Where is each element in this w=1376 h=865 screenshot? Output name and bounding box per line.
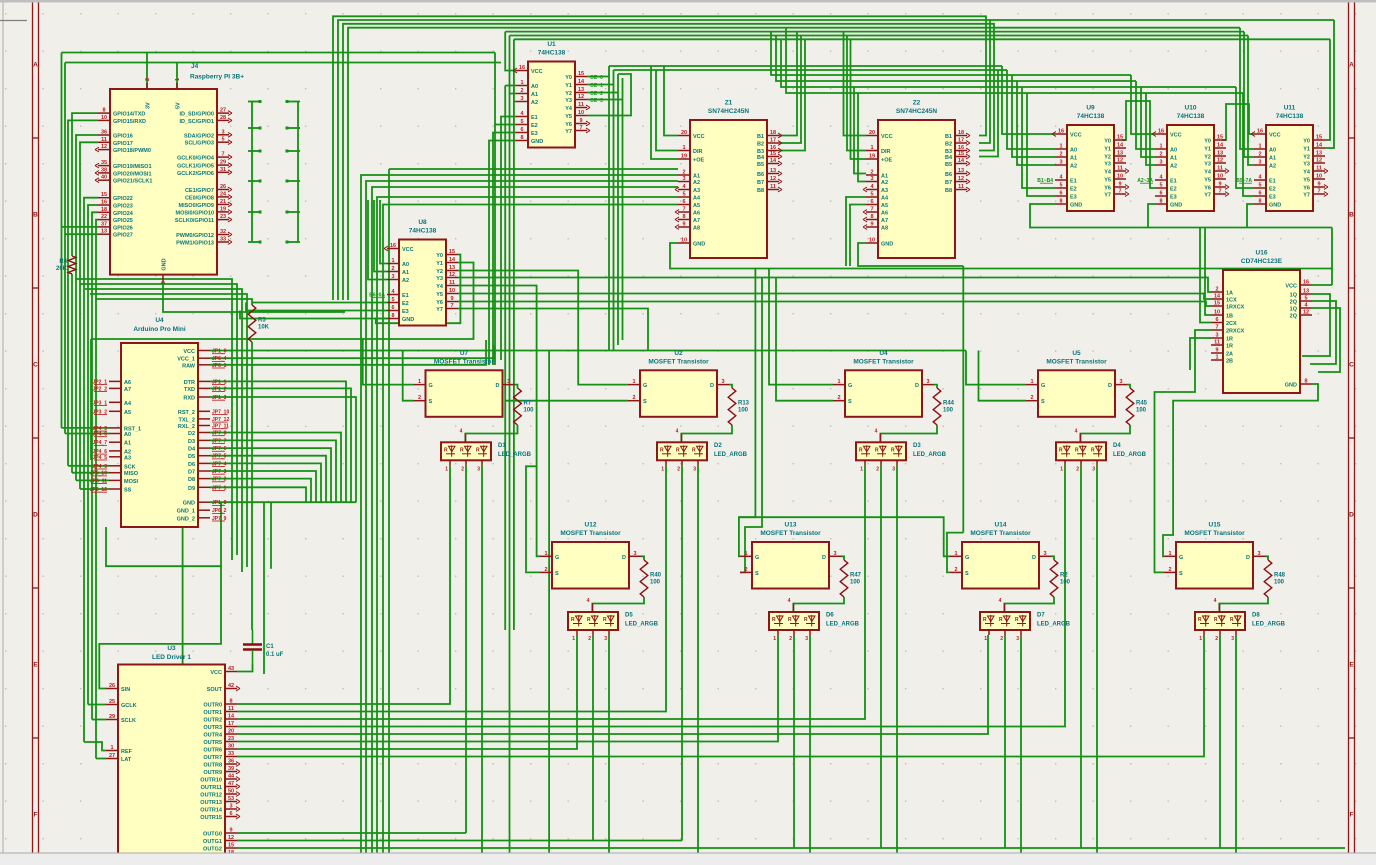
svg-text:6: 6 bbox=[520, 127, 523, 133]
wire bbox=[880, 465, 882, 848]
svg-text:R: R bbox=[804, 617, 808, 623]
svg-text:10: 10 bbox=[869, 238, 875, 244]
svg-text:S: S bbox=[555, 571, 559, 577]
svg-text:R: R bbox=[1198, 617, 1202, 623]
svg-text:Y7: Y7 bbox=[565, 129, 572, 135]
svg-text:SCLK: SCLK bbox=[121, 718, 136, 724]
svg-text:PWM0/GPIO12: PWM0/GPIO12 bbox=[176, 233, 214, 239]
svg-text:GPIO14/TXD: GPIO14/TXD bbox=[113, 112, 145, 118]
svg-text:A7: A7 bbox=[881, 218, 888, 224]
wire bbox=[248, 211, 260, 213]
wire bbox=[494, 53, 496, 125]
wire bbox=[779, 39, 805, 150]
svg-text:5: 5 bbox=[1258, 183, 1261, 189]
svg-text:12: 12 bbox=[1217, 158, 1223, 164]
junction bbox=[286, 100, 289, 103]
svg-text:19: 19 bbox=[220, 206, 226, 212]
svg-text:12: 12 bbox=[101, 144, 107, 150]
svg-text:A2: A2 bbox=[1070, 164, 1077, 170]
svg-text:B4: B4 bbox=[945, 155, 953, 161]
svg-text:A1: A1 bbox=[693, 174, 700, 180]
svg-text:A2: A2 bbox=[693, 180, 700, 186]
wire bbox=[1190, 338, 1211, 370]
svg-text:13: 13 bbox=[1303, 289, 1309, 295]
svg-text:3: 3 bbox=[221, 129, 224, 135]
svg-text:U14: U14 bbox=[995, 522, 1007, 529]
wire bbox=[934, 385, 937, 388]
wire bbox=[786, 28, 1243, 93]
wire bbox=[513, 102, 515, 631]
svg-text:2RXCX: 2RXCX bbox=[1226, 329, 1245, 335]
LED module D4 LED_ARGB bbox=[1056, 428, 1147, 472]
wire bbox=[1080, 425, 1130, 442]
wire bbox=[846, 197, 866, 266]
svg-text:14: 14 bbox=[1316, 143, 1323, 149]
svg-text:R45: R45 bbox=[1136, 401, 1148, 407]
svg-text:9: 9 bbox=[1215, 348, 1218, 354]
svg-text:VCC: VCC bbox=[210, 670, 222, 676]
IC U15 MOSFET Transistor bbox=[1164, 522, 1265, 589]
svg-text:12: 12 bbox=[958, 176, 964, 182]
svg-text:A7: A7 bbox=[693, 218, 700, 224]
wire bbox=[609, 65, 1002, 67]
svg-text:R44: R44 bbox=[943, 401, 955, 407]
LED module D3 LED_ARGB bbox=[856, 428, 947, 472]
svg-text:Y6: Y6 bbox=[436, 300, 443, 306]
svg-text:B2: B2 bbox=[757, 142, 764, 148]
wire bbox=[92, 719, 106, 721]
svg-text:D8: D8 bbox=[188, 477, 195, 483]
svg-text:A7: A7 bbox=[124, 387, 131, 393]
svg-text:13: 13 bbox=[1316, 151, 1322, 157]
svg-text:12: 12 bbox=[1303, 310, 1309, 316]
svg-text:10: 10 bbox=[449, 288, 455, 294]
svg-text:R: R bbox=[692, 447, 696, 453]
LED module D2 LED_ARGB bbox=[657, 428, 748, 472]
svg-text:VCC: VCC bbox=[1070, 133, 1082, 139]
wire bbox=[76, 135, 98, 480]
wire bbox=[850, 205, 866, 267]
svg-text:100: 100 bbox=[650, 580, 661, 586]
svg-text:5: 5 bbox=[682, 192, 685, 198]
svg-text:U13: U13 bbox=[785, 522, 797, 529]
wire bbox=[363, 339, 414, 385]
wire bbox=[210, 440, 336, 502]
wire bbox=[465, 425, 517, 442]
wire bbox=[65, 433, 109, 435]
svg-text:3: 3 bbox=[693, 466, 696, 472]
wire bbox=[781, 39, 1236, 87]
svg-text:Y0: Y0 bbox=[565, 75, 572, 81]
svg-text:U2: U2 bbox=[674, 350, 683, 357]
wire bbox=[91, 263, 474, 340]
svg-text:4: 4 bbox=[875, 428, 878, 434]
LED module D5 LED_ARGB bbox=[568, 598, 659, 642]
svg-text:6: 6 bbox=[391, 305, 394, 311]
wire bbox=[1127, 385, 1130, 388]
wire bbox=[681, 425, 732, 442]
svg-text:R: R bbox=[676, 447, 680, 453]
wire bbox=[237, 635, 778, 742]
svg-text:31: 31 bbox=[220, 167, 226, 173]
IC U2 MOSFET Transistor bbox=[628, 350, 729, 417]
svg-text:B: B bbox=[1349, 212, 1354, 219]
wire bbox=[64, 63, 66, 434]
svg-text:14: 14 bbox=[228, 714, 235, 720]
wire bbox=[739, 517, 950, 556]
svg-text:5: 5 bbox=[870, 192, 873, 198]
wire bbox=[210, 501, 356, 503]
wire bbox=[237, 664, 253, 672]
svg-text:U9: U9 bbox=[1086, 105, 1095, 112]
svg-text:VCC: VCC bbox=[402, 247, 414, 253]
svg-text:10: 10 bbox=[578, 110, 584, 116]
svg-text:GND: GND bbox=[881, 242, 893, 248]
svg-text:74HC138: 74HC138 bbox=[1276, 113, 1304, 120]
wire bbox=[333, 16, 986, 300]
svg-text:Y5: Y5 bbox=[1303, 178, 1310, 184]
svg-text:ID_SC/GPIO1: ID_SC/GPIO1 bbox=[179, 119, 214, 125]
wire bbox=[210, 397, 356, 502]
wire bbox=[1141, 87, 1155, 157]
wire bbox=[979, 70, 998, 157]
svg-text:U4: U4 bbox=[155, 317, 164, 324]
wire bbox=[1096, 465, 1098, 853]
svg-text:A5: A5 bbox=[124, 410, 131, 416]
svg-text:R: R bbox=[875, 447, 879, 453]
svg-text:6: 6 bbox=[1258, 191, 1261, 197]
svg-text:7: 7 bbox=[450, 303, 453, 309]
svg-text:A1: A1 bbox=[1070, 156, 1077, 162]
svg-text:2: 2 bbox=[744, 567, 747, 573]
wire bbox=[182, 527, 184, 664]
svg-text:21: 21 bbox=[220, 199, 226, 205]
svg-text:S: S bbox=[1179, 571, 1183, 577]
svg-text:G: G bbox=[848, 383, 852, 389]
svg-text:Y0: Y0 bbox=[1104, 139, 1111, 145]
svg-text:D: D bbox=[622, 555, 626, 561]
svg-text:3: 3 bbox=[833, 551, 836, 557]
svg-text:D8: D8 bbox=[1252, 613, 1260, 619]
wire bbox=[809, 635, 811, 853]
wire bbox=[68, 120, 98, 465]
wire bbox=[366, 181, 678, 853]
wire bbox=[210, 388, 351, 502]
svg-text:3: 3 bbox=[507, 379, 510, 385]
wire bbox=[1051, 556, 1054, 560]
wire bbox=[493, 133, 516, 366]
svg-text:E3: E3 bbox=[531, 131, 538, 137]
wire bbox=[1247, 204, 1254, 228]
svg-text:12: 12 bbox=[578, 94, 584, 100]
wire bbox=[587, 99, 623, 101]
svg-text:3: 3 bbox=[1059, 160, 1062, 166]
svg-text:39: 39 bbox=[228, 766, 234, 772]
svg-text:A4: A4 bbox=[124, 401, 132, 407]
svg-text:1: 1 bbox=[110, 745, 113, 751]
LED module D8 LED_ARGB bbox=[1195, 598, 1286, 642]
svg-text:U3: U3 bbox=[167, 645, 176, 652]
svg-text:GPIO18/PWM0: GPIO18/PWM0 bbox=[113, 148, 151, 154]
svg-text:CE0/GPIO8: CE0/GPIO8 bbox=[185, 195, 214, 201]
svg-text:10: 10 bbox=[101, 115, 107, 121]
resistor R47 bbox=[840, 560, 861, 597]
svg-text:Y4: Y4 bbox=[565, 106, 573, 112]
svg-text:R: R bbox=[859, 447, 863, 453]
svg-text:2: 2 bbox=[1258, 152, 1261, 158]
wire bbox=[338, 20, 1334, 300]
svg-text:D4: D4 bbox=[188, 447, 196, 453]
svg-text:LED_ARGB: LED_ARGB bbox=[498, 452, 532, 458]
svg-text:3: 3 bbox=[391, 274, 394, 280]
svg-text:11: 11 bbox=[228, 706, 234, 712]
svg-text:2: 2 bbox=[1030, 395, 1033, 401]
wire bbox=[210, 471, 316, 502]
svg-text:20: 20 bbox=[228, 729, 234, 735]
IC U13 MOSFET Transistor bbox=[740, 522, 841, 589]
svg-text:11: 11 bbox=[770, 184, 776, 190]
svg-text:OUTG0: OUTG0 bbox=[203, 832, 222, 838]
wire bbox=[61, 53, 63, 428]
wire bbox=[248, 150, 260, 152]
wire bbox=[65, 62, 501, 64]
svg-text:15: 15 bbox=[958, 151, 964, 157]
svg-text:8: 8 bbox=[1159, 199, 1162, 205]
svg-text:15: 15 bbox=[1214, 301, 1220, 307]
wire bbox=[62, 226, 99, 228]
svg-text:2Q: 2Q bbox=[1290, 300, 1298, 306]
svg-text:2: 2 bbox=[1215, 287, 1218, 293]
wire bbox=[592, 597, 644, 612]
svg-text:LED_ARGB: LED_ARGB bbox=[913, 452, 947, 458]
wire bbox=[90, 294, 247, 567]
wire bbox=[287, 127, 300, 129]
wire bbox=[176, 63, 178, 90]
wire bbox=[1022, 87, 1055, 188]
IC J4 Raspberry PI 3B+ bbox=[95, 63, 244, 284]
junction bbox=[286, 211, 289, 214]
svg-text:1CX: 1CX bbox=[1226, 298, 1237, 304]
svg-text:VCC: VCC bbox=[1269, 133, 1281, 139]
svg-text:11: 11 bbox=[101, 137, 107, 143]
svg-text:GND: GND bbox=[693, 242, 705, 248]
svg-text:MOSFET Transistor: MOSFET Transistor bbox=[970, 530, 1031, 537]
wire bbox=[383, 205, 678, 854]
svg-text:74HC138: 74HC138 bbox=[409, 228, 437, 235]
wire bbox=[656, 70, 678, 151]
svg-text:15: 15 bbox=[228, 843, 234, 849]
svg-text:3: 3 bbox=[477, 466, 480, 472]
svg-text:A: A bbox=[33, 62, 38, 69]
IC U16 CD74HC123E bbox=[1211, 250, 1312, 394]
svg-text:GPIO21/SCLK1: GPIO21/SCLK1 bbox=[113, 179, 152, 185]
svg-text:E2: E2 bbox=[402, 301, 409, 307]
wire bbox=[608, 635, 610, 853]
svg-text:43: 43 bbox=[228, 666, 234, 672]
wire bbox=[374, 200, 387, 272]
svg-text:DIR: DIR bbox=[693, 149, 703, 155]
svg-text:1: 1 bbox=[391, 258, 394, 264]
svg-text:13: 13 bbox=[1117, 151, 1123, 157]
svg-text:14: 14 bbox=[449, 257, 456, 263]
svg-text:2: 2 bbox=[1000, 636, 1003, 642]
svg-text:7: 7 bbox=[221, 152, 224, 158]
svg-text:GPIO19/MISO1: GPIO19/MISO1 bbox=[113, 164, 152, 170]
wire bbox=[297, 102, 299, 243]
svg-text:2: 2 bbox=[1159, 152, 1162, 158]
svg-text:DIR: DIR bbox=[881, 149, 891, 155]
svg-text:30: 30 bbox=[228, 744, 234, 750]
svg-text:B8: B8 bbox=[757, 188, 764, 194]
wire bbox=[68, 465, 109, 467]
wire bbox=[1136, 81, 1155, 149]
svg-text:13: 13 bbox=[770, 168, 776, 174]
svg-text:74HC138: 74HC138 bbox=[1177, 113, 1205, 120]
wire bbox=[96, 220, 98, 759]
svg-text:A8: A8 bbox=[881, 226, 888, 232]
wire bbox=[458, 309, 648, 351]
svg-text:OUTG1: OUTG1 bbox=[203, 839, 222, 845]
IC Z2 SN74HC245N bbox=[863, 100, 970, 259]
svg-text:Y3: Y3 bbox=[1204, 162, 1211, 168]
svg-text:A: A bbox=[1349, 62, 1354, 69]
svg-text:VCC: VCC bbox=[1170, 133, 1182, 139]
wire bbox=[1222, 104, 1254, 140]
wire bbox=[240, 311, 387, 319]
svg-text:1R: 1R bbox=[1226, 337, 1233, 343]
wire bbox=[617, 74, 619, 345]
svg-text:GND: GND bbox=[1285, 383, 1297, 389]
svg-text:RST_2: RST_2 bbox=[178, 410, 195, 416]
wire bbox=[481, 465, 483, 853]
wire bbox=[651, 66, 678, 159]
svg-text:ID_SD/GPIO0: ID_SD/GPIO0 bbox=[179, 112, 214, 118]
svg-text:15: 15 bbox=[101, 192, 107, 198]
wire bbox=[1080, 465, 1082, 848]
svg-text:44: 44 bbox=[228, 774, 235, 780]
svg-text:13: 13 bbox=[958, 168, 964, 174]
svg-text:40: 40 bbox=[101, 175, 107, 181]
LED module D1 LED_ARGB bbox=[441, 428, 532, 472]
svg-text:2: 2 bbox=[1059, 152, 1062, 158]
wire bbox=[388, 169, 390, 853]
wire bbox=[1312, 284, 1332, 286]
svg-text:Y1: Y1 bbox=[1204, 147, 1211, 153]
svg-text:REF: REF bbox=[121, 749, 133, 755]
svg-text:16: 16 bbox=[1158, 129, 1164, 135]
resistor R13 bbox=[728, 388, 749, 425]
svg-text:VCC: VCC bbox=[183, 349, 195, 355]
svg-text:10: 10 bbox=[1316, 174, 1322, 180]
svg-text:A2: A2 bbox=[402, 278, 409, 284]
svg-text:GPIO26: GPIO26 bbox=[113, 225, 133, 231]
svg-text:Y1: Y1 bbox=[565, 83, 572, 89]
wire bbox=[1310, 301, 1336, 364]
svg-text:LED_ARGB: LED_ARGB bbox=[714, 452, 748, 458]
svg-text:GPIO25: GPIO25 bbox=[113, 218, 133, 224]
wire bbox=[1331, 228, 1333, 286]
wire bbox=[793, 635, 795, 848]
svg-text:Y6: Y6 bbox=[1303, 186, 1310, 192]
svg-text:GPIO23: GPIO23 bbox=[113, 204, 133, 210]
svg-text:R: R bbox=[587, 617, 591, 623]
svg-text:A1: A1 bbox=[531, 92, 538, 98]
svg-text:Y4: Y4 bbox=[1204, 170, 1212, 176]
svg-text:D: D bbox=[1108, 383, 1112, 389]
IC U10 74HC138 bbox=[1137, 105, 1229, 212]
svg-text:2: 2 bbox=[588, 636, 591, 642]
wire bbox=[210, 463, 321, 502]
resistor R2 bbox=[1050, 560, 1070, 597]
wire bbox=[75, 279, 232, 560]
svg-text:J4: J4 bbox=[191, 63, 199, 70]
svg-text:1: 1 bbox=[860, 466, 863, 472]
wire bbox=[237, 635, 577, 749]
wire bbox=[779, 32, 797, 136]
svg-text:D3: D3 bbox=[913, 443, 921, 449]
wire bbox=[514, 38, 1330, 40]
svg-text:74HC138: 74HC138 bbox=[1077, 113, 1105, 120]
svg-text:2: 2 bbox=[544, 567, 547, 573]
svg-text:3: 3 bbox=[520, 96, 523, 102]
wire bbox=[210, 381, 346, 502]
svg-text:G: G bbox=[965, 555, 969, 561]
svg-text:1: 1 bbox=[984, 636, 987, 642]
svg-text:8: 8 bbox=[229, 699, 232, 705]
svg-text:8: 8 bbox=[1258, 199, 1261, 205]
junction bbox=[259, 211, 262, 214]
wire bbox=[587, 84, 614, 86]
svg-text:MOSFET Transistor: MOSFET Transistor bbox=[560, 530, 621, 537]
svg-text:Y7: Y7 bbox=[1104, 193, 1111, 199]
svg-text:C: C bbox=[33, 362, 38, 369]
svg-text:19: 19 bbox=[681, 154, 687, 160]
wire bbox=[505, 31, 1244, 33]
svg-text:TXD: TXD bbox=[184, 387, 195, 393]
svg-text:A0: A0 bbox=[1269, 148, 1276, 154]
svg-text:Y1: Y1 bbox=[1104, 147, 1111, 153]
svg-text:15: 15 bbox=[1117, 135, 1123, 141]
svg-text:20K: 20K bbox=[56, 266, 68, 272]
svg-text:VCC: VCC bbox=[1285, 284, 1297, 290]
svg-text:SCK: SCK bbox=[124, 464, 136, 470]
svg-text:A8: A8 bbox=[693, 226, 700, 232]
IC Z1 SN74HC245N bbox=[675, 100, 782, 259]
svg-text:GPIO16: GPIO16 bbox=[113, 134, 133, 140]
svg-text:GND: GND bbox=[183, 501, 195, 507]
svg-text:Y3: Y3 bbox=[436, 276, 443, 282]
wire bbox=[1302, 294, 1330, 356]
svg-text:1A: 1A bbox=[1226, 291, 1233, 297]
svg-text:1: 1 bbox=[1060, 466, 1063, 472]
svg-text:A3: A3 bbox=[881, 188, 888, 194]
svg-text:33: 33 bbox=[228, 751, 234, 757]
resistor R4 bbox=[56, 256, 76, 274]
svg-text:R: R bbox=[460, 447, 464, 453]
svg-text:GPIO24: GPIO24 bbox=[113, 211, 134, 217]
wire bbox=[526, 466, 540, 572]
svg-text:6: 6 bbox=[1159, 191, 1162, 197]
svg-text:3: 3 bbox=[1119, 379, 1122, 385]
wire bbox=[1265, 556, 1268, 560]
svg-text:1: 1 bbox=[544, 551, 547, 557]
wire bbox=[614, 69, 1008, 71]
svg-text:U1: U1 bbox=[547, 41, 556, 48]
svg-text:R: R bbox=[603, 617, 607, 623]
svg-text:6: 6 bbox=[1215, 317, 1218, 323]
wire bbox=[510, 36, 517, 94]
svg-text:3: 3 bbox=[229, 804, 232, 810]
